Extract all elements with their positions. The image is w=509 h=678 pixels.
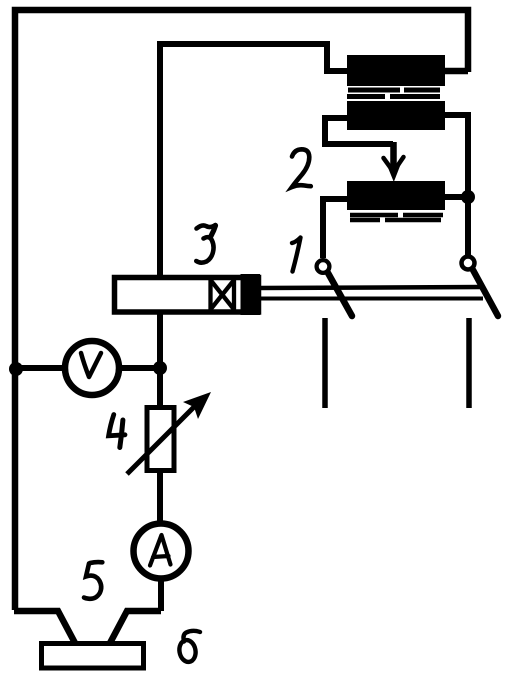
arrow into W3: [390, 142, 397, 167]
wire W2 left to arrow (moving contact feed): [325, 118, 393, 144]
winding W3 (lower coil): [347, 181, 445, 210]
electrode 6 plate: [42, 644, 144, 669]
core hatch below W3: [350, 215, 443, 220]
stub below switch 1b: [466, 318, 472, 408]
switch 1b contact circle: [462, 257, 475, 270]
stub below switch 1a: [322, 318, 328, 408]
rheostat 4 body: [147, 408, 174, 471]
wire funnel left side: [14, 611, 75, 643]
label 3: [196, 225, 215, 263]
junction node mid: [153, 361, 167, 375]
core hatch between W1 and W2: [347, 90, 444, 97]
wire W3 right stub: [445, 194, 468, 200]
label 4: [109, 415, 125, 448]
wire outer loop (left vertical, top horizontal, right drop to winding 1): [15, 10, 468, 610]
switch 1a blade: [328, 273, 352, 316]
wire inner top (from coil 3 up and across to winding 1 left): [160, 44, 348, 276]
wire coil3 to V junction: [157, 314, 163, 368]
wire W2 right down to junction: [445, 115, 468, 197]
wire W1 right stub: [445, 68, 468, 75]
voltmeter V right wire: [118, 365, 160, 371]
ammeter letter A: [150, 535, 171, 566]
rheostat 4 arrow shaft: [127, 401, 200, 474]
winding W1 (top coil of transformer 2): [347, 55, 445, 86]
wire W3 left stub down to switch 1a: [323, 199, 347, 258]
rheostat 4 arrow head: [183, 392, 211, 419]
voltmeter V left wire: [15, 365, 66, 371]
coil 3 armature black block: [241, 274, 261, 315]
winding W2 (middle coil): [347, 101, 445, 130]
switch 1a contact circle: [317, 260, 330, 273]
rod lower line: [259, 297, 483, 301]
wire rheostat to ammeter: [157, 471, 163, 525]
wire V junction to rheostat: [157, 368, 163, 406]
label 6: [178, 631, 200, 663]
label 1: [292, 238, 301, 272]
switch 1b blade: [473, 270, 498, 316]
coil 3 body (solenoid): [115, 278, 259, 313]
junction node right: [461, 190, 475, 204]
voltmeter circle: [65, 341, 119, 395]
ammeter circle: [134, 524, 189, 579]
label 2: [292, 149, 311, 187]
wire ammeter down: [158, 578, 164, 611]
wire junction down to switch 1b: [465, 197, 471, 255]
rod upper line (plunger from coil 3): [259, 287, 482, 288]
wire funnel right side: [110, 611, 161, 643]
coil 3 X box: [211, 277, 235, 312]
junction node left: [9, 362, 23, 376]
label 5: [84, 562, 102, 599]
voltmeter letter V: [81, 353, 101, 377]
